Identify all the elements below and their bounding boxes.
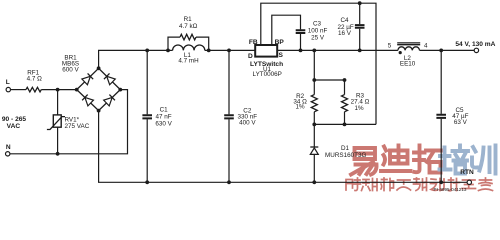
- svg-text:63 V: 63 V: [454, 119, 468, 126]
- diode BR1 top-right: [104, 73, 115, 84]
- diode BR1 top-left: [82, 73, 93, 84]
- node bridge right: [118, 88, 122, 92]
- wire bridge+ to top rail, rail to L1: [99, 50, 173, 68]
- capacitor C3: [296, 30, 306, 33]
- node C4 top: [358, 1, 362, 5]
- svg-text:16 V: 16 V: [338, 30, 352, 37]
- svg-text:275 VAC: 275 VAC: [65, 123, 90, 130]
- watermark row2 shepin (red): [346, 178, 493, 191]
- node C4 bottom: [358, 49, 362, 53]
- svg-text:54 V, 130 mA: 54 V, 130 mA: [455, 41, 495, 48]
- inductor L1: [173, 45, 205, 50]
- svg-text:C1: C1: [160, 107, 169, 114]
- watermark char di (red): [381, 146, 411, 172]
- svg-text:1%: 1%: [296, 104, 306, 111]
- svg-text:D1: D1: [341, 145, 350, 152]
- node R1 left: [166, 49, 170, 53]
- wire R2R3 ladder: [314, 50, 376, 147]
- svg-text:LYT0006P: LYT0006P: [253, 71, 282, 78]
- svg-text:S: S: [278, 52, 283, 59]
- resistor R1 branch: [168, 37, 209, 50]
- resistor R3: [342, 95, 348, 112]
- wire RV1 riser: [57, 90, 59, 154]
- svg-text:630 V: 630 V: [155, 121, 172, 128]
- node C5 top: [439, 49, 443, 53]
- wire bridge- down and bottom rail: [99, 111, 467, 183]
- watermark char tuo (red): [414, 146, 442, 173]
- node ladder bottom-right: [343, 123, 347, 127]
- watermark char pei (blue): [440, 146, 469, 174]
- wire L to RF1: [11, 89, 26, 91]
- terminal output 54V: [474, 48, 478, 52]
- svg-text:RTN: RTN: [460, 169, 474, 176]
- node C3 bottom: [299, 49, 303, 53]
- inductor L2: [398, 47, 420, 51]
- resistor RF1: [26, 87, 41, 92]
- svg-text:4.7 mH: 4.7 mH: [178, 58, 199, 65]
- node bridge bottom: [97, 109, 101, 113]
- varistor RV1: [53, 115, 61, 127]
- bridge BR1 diamond: [77, 68, 121, 110]
- capacitor C5: [440, 50, 442, 182]
- node R2 rail: [312, 49, 316, 53]
- svg-text:5: 5: [388, 42, 392, 49]
- node bridge top: [97, 66, 101, 70]
- wire S rail: [277, 49, 398, 51]
- svg-text:1%: 1%: [354, 105, 364, 112]
- wire L2 to output: [420, 49, 475, 51]
- svg-text:BP: BP: [275, 39, 285, 46]
- terminal L: [6, 87, 10, 91]
- node C2 top: [227, 49, 231, 53]
- capacitor C4: [359, 3, 361, 50]
- watermark char yi (red): [351, 148, 377, 175]
- diode D1: [310, 146, 318, 148]
- svg-text:EE10: EE10: [400, 61, 416, 68]
- svg-text:47 nF: 47 nF: [156, 114, 172, 121]
- terminal N: [6, 152, 10, 156]
- WATERMARK: [346, 146, 496, 191]
- node C5 bottom: [439, 180, 443, 184]
- capacitor C1: [146, 50, 148, 182]
- node ladder top-left: [312, 78, 316, 82]
- resistor R2: [311, 95, 317, 112]
- diode BR1 bottom-left: [82, 95, 93, 106]
- wire N to bridge right vertex: [10, 90, 128, 154]
- svg-text:PI-4995-041213: PI-4995-041213: [434, 187, 467, 192]
- svg-text:VAC: VAC: [7, 123, 21, 130]
- svg-text:4.7 kΩ: 4.7 kΩ: [179, 23, 198, 30]
- node C1 top: [145, 49, 149, 53]
- capacitor C2: [228, 50, 230, 182]
- terminal RTN: [467, 180, 471, 184]
- wire rail L1 to D pin: [205, 49, 255, 51]
- svg-text:600 V: 600 V: [62, 66, 79, 73]
- svg-text:4.7 Ω: 4.7 Ω: [27, 75, 43, 82]
- op U1 LYTSwitch box: [255, 45, 277, 57]
- svg-text:MURS160T3G: MURS160T3G: [325, 152, 366, 159]
- diode BR1 bottom-right: [104, 95, 115, 106]
- svg-text:D: D: [248, 53, 253, 60]
- svg-text:FB: FB: [249, 39, 258, 46]
- watermark char xun (blue): [472, 146, 496, 174]
- node RV1 top: [56, 88, 60, 92]
- node ladder top-right: [343, 78, 347, 82]
- node R1 right: [207, 49, 211, 53]
- svg-text:N: N: [6, 144, 11, 151]
- node D1 bottom: [312, 180, 316, 184]
- svg-text:L: L: [6, 79, 10, 86]
- svg-text:4: 4: [424, 42, 428, 49]
- node C2 bottom: [227, 180, 231, 184]
- node ladder bottom-left: [312, 123, 316, 127]
- node C1 bottom: [145, 180, 149, 184]
- wire FB riser and top line: [261, 3, 376, 124]
- node L2 phase dot: [399, 51, 402, 54]
- node bridge left: [75, 88, 79, 92]
- svg-text:400 V: 400 V: [239, 120, 256, 127]
- svg-text:25 V: 25 V: [311, 35, 325, 42]
- wire BP riser to C3: [272, 15, 301, 50]
- wire RF1 to bridge left vertex: [41, 89, 76, 91]
- node RV1 bottom: [56, 152, 60, 156]
- svg-text:100 nF: 100 nF: [308, 27, 328, 34]
